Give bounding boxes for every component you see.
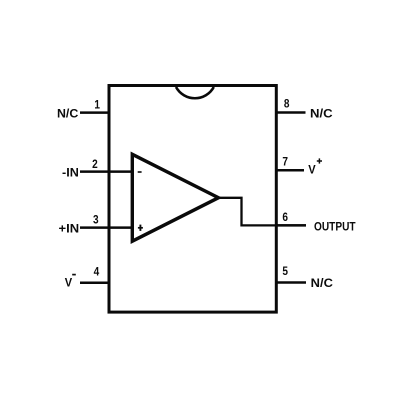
- svg-text:6: 6: [282, 210, 288, 224]
- svg-text:N/C: N/C: [311, 276, 333, 290]
- pin-1 orientation notch: [176, 87, 214, 98]
- +IN net label: [59, 222, 80, 236]
- svg-text:N/C: N/C: [57, 107, 78, 121]
- pin 3 number: [93, 212, 99, 226]
- svg-text:3: 3: [93, 212, 99, 226]
- pin 4 lead: [80, 281, 109, 284]
- inverting input minus symbol: [138, 171, 142, 173]
- N/C net label pin 8: [310, 107, 333, 121]
- pin 1 number: [94, 98, 100, 112]
- non-inverting input plus symbol: [138, 225, 143, 231]
- pin 5 number: [282, 264, 288, 278]
- pin 3 lead wire to non-inverting input: [80, 226, 133, 229]
- svg-text:5: 5: [282, 264, 288, 278]
- pin 7 lead: [276, 169, 304, 172]
- V+ net label: [308, 158, 322, 176]
- N/C net label pin 1: [57, 107, 78, 121]
- op-amp amplifier triangle: [132, 154, 218, 241]
- pin 6 number: [282, 210, 288, 224]
- svg-text:1: 1: [94, 98, 100, 112]
- N/C net label pin 5: [311, 276, 333, 290]
- pin 6 lead: [276, 224, 306, 227]
- pin 4 number: [94, 265, 100, 279]
- svg-text:4: 4: [94, 265, 100, 279]
- -IN net label: [62, 165, 79, 179]
- pin 1 lead: [80, 111, 109, 114]
- svg-text:V: V: [308, 163, 316, 177]
- svg-text:+IN: +IN: [59, 222, 80, 236]
- pin 8 lead: [276, 111, 305, 114]
- pin 2 lead wire to inverting input: [80, 170, 133, 173]
- svg-text:8: 8: [284, 97, 290, 111]
- svg-text:OUTPUT: OUTPUT: [314, 220, 356, 234]
- op-amp U1 DIP-8 package body: [109, 86, 276, 313]
- svg-text:7: 7: [282, 155, 288, 169]
- pin 8 number: [284, 97, 290, 111]
- pin 7 number: [282, 155, 288, 169]
- svg-text:-IN: -IN: [62, 165, 79, 179]
- OUTPUT net label: [314, 220, 356, 234]
- svg-text:N/C: N/C: [310, 107, 333, 121]
- svg-text:V: V: [65, 276, 73, 290]
- pin 2 number: [92, 157, 98, 171]
- output wire from op-amp apex to pin 6: [219, 198, 306, 226]
- svg-text:2: 2: [92, 157, 98, 171]
- V- net label: [65, 275, 76, 290]
- pin 5 lead: [276, 281, 306, 284]
